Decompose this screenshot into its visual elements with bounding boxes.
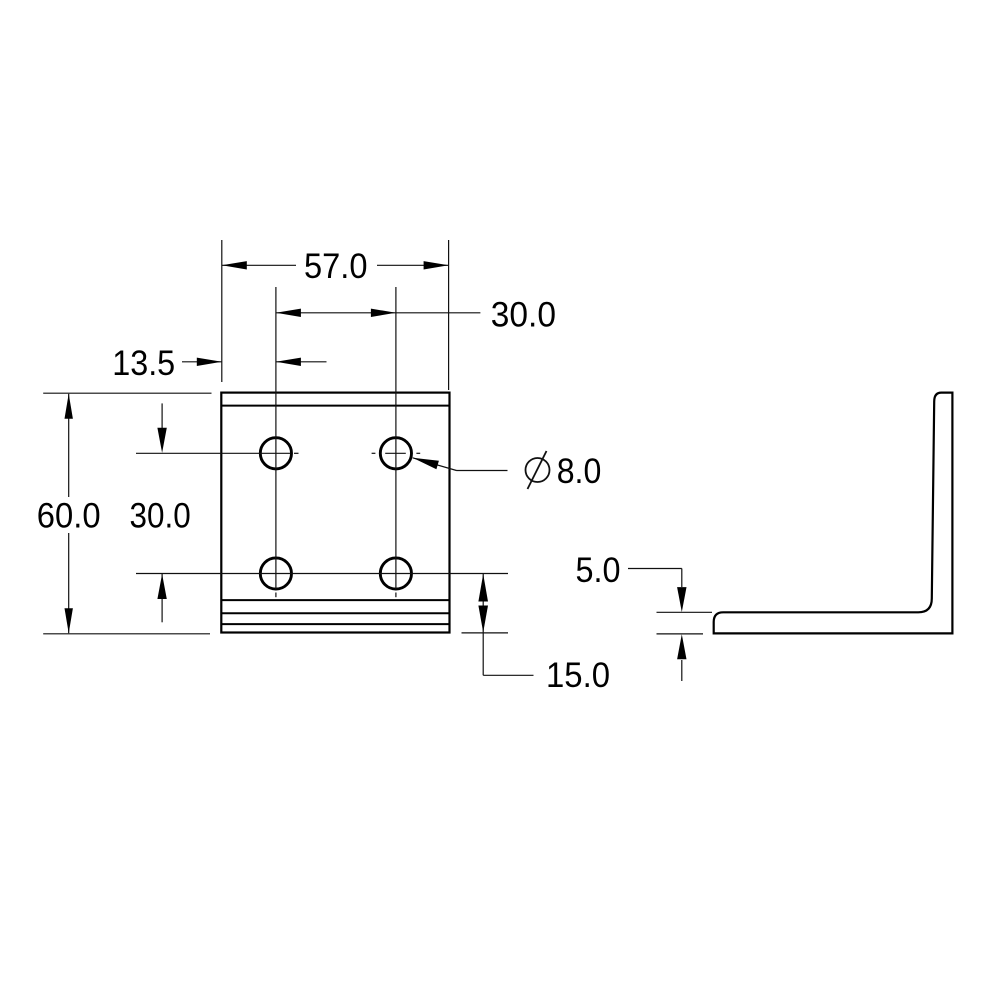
diameter symbol — [526, 451, 550, 489]
label 57.0 — [304, 246, 368, 286]
hole top-left — [260, 438, 291, 469]
dim 15.0 dimension line and leader — [483, 574, 533, 675]
svg-text:13.5: 13.5 — [112, 343, 175, 383]
bend line bottom 1 — [221, 599, 449, 601]
arrowhead 57.0 right — [424, 261, 449, 269]
label 15.0 — [546, 655, 610, 695]
svg-text:30.0: 30.0 — [491, 295, 556, 335]
hole bottom-right — [380, 558, 411, 589]
centerline right column — [395, 287, 397, 597]
dim 30.0 left dimension line — [161, 403, 163, 622]
bend line top — [221, 405, 449, 407]
dim 15.0 extension line bottom — [462, 632, 509, 634]
svg-text:5.0: 5.0 — [576, 550, 621, 590]
dim 60.0 extension lines — [43, 393, 211, 634]
arrowhead 30.0 top left — [276, 309, 301, 317]
label 8.0 — [557, 451, 602, 491]
centerline left column — [275, 287, 277, 597]
arrowhead 60.0 top — [65, 394, 73, 419]
label 60.0 — [37, 495, 101, 535]
arrowhead 5.0 top (points down) — [677, 587, 686, 612]
dim 57.0 extension lines — [222, 240, 449, 390]
dim 30.0 top dimension line — [276, 312, 481, 314]
svg-text:60.0: 60.0 — [37, 495, 101, 535]
svg-text:30.0: 30.0 — [130, 495, 191, 535]
arrowhead 60.0 bottom — [65, 608, 73, 633]
label 30.0 horizontal — [491, 295, 556, 335]
hole top-right — [380, 438, 411, 469]
plate outline (front view) — [221, 393, 449, 633]
svg-text:15.0: 15.0 — [546, 655, 610, 695]
extension lines for 5.0 (leg thickness) — [657, 612, 713, 634]
arrowhead hole leader — [413, 458, 439, 470]
arrowhead 30.0 left top (points down) — [157, 428, 166, 453]
dim 60.0 dimension line — [68, 394, 70, 633]
bend line bottom 3 — [221, 623, 449, 625]
label 5.0 — [576, 550, 621, 590]
label 30.0 vertical — [130, 495, 191, 535]
label 13.5 — [112, 343, 175, 383]
dim 13.5 dimension line — [182, 361, 327, 363]
svg-text:8.0: 8.0 — [557, 451, 602, 491]
leader for 5.0 — [628, 569, 682, 682]
arrowhead 30.0 left bottom (points up) — [157, 574, 166, 599]
centerline bottom row / extension for 15.0 — [136, 573, 508, 575]
svg-text:57.0: 57.0 — [304, 246, 368, 286]
centerline top row — [136, 452, 420, 454]
dim 57.0 dimension line — [222, 264, 449, 266]
side view L profile — [714, 393, 953, 634]
leader line for hole diameter — [413, 458, 508, 471]
arrowhead 5.0 bottom (points up) — [677, 634, 686, 659]
arrowhead 13.5 right (points left) — [276, 358, 301, 366]
bend line bottom 2 — [221, 612, 449, 614]
arrowhead 57.0 left — [222, 261, 247, 269]
arrowhead 15.0 bottom (points down) — [478, 606, 488, 633]
arrowhead 30.0 top right — [371, 309, 396, 317]
arrowhead 15.0 top (points up) — [478, 574, 488, 602]
hole bottom-left — [260, 558, 291, 589]
arrowhead 13.5 left (points right) — [197, 358, 222, 366]
